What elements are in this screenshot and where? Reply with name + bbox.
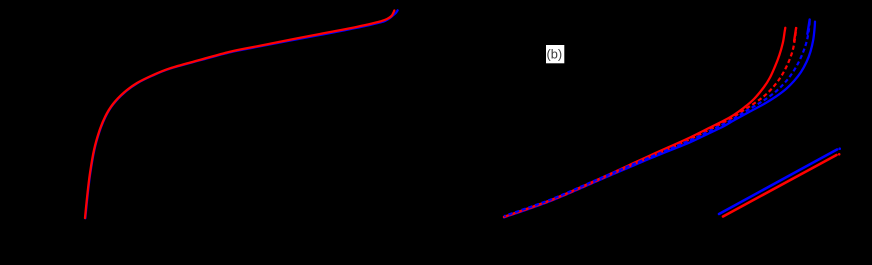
svg-text:(b): (b) [546,47,562,62]
panel (b) solid blue curve [504,22,815,218]
panel (b) dashed red curve [504,27,796,217]
panel (b) lower red line end dot [838,153,841,156]
panel (a) red curve [85,11,394,219]
panel (b) lower red line [723,155,837,217]
panel (b) lower blue line end dot [838,147,841,150]
panel (b) dashed blue curve tip [807,20,809,35]
panel (b) dashed red curve tip [794,28,796,41]
panel (b) solid red curve [504,28,785,217]
panel (b) lower blue line [719,150,837,215]
panel (b) dashed blue curve [504,19,810,217]
label (b) white box [546,45,564,63]
panel (a) blue curve [85,10,397,218]
